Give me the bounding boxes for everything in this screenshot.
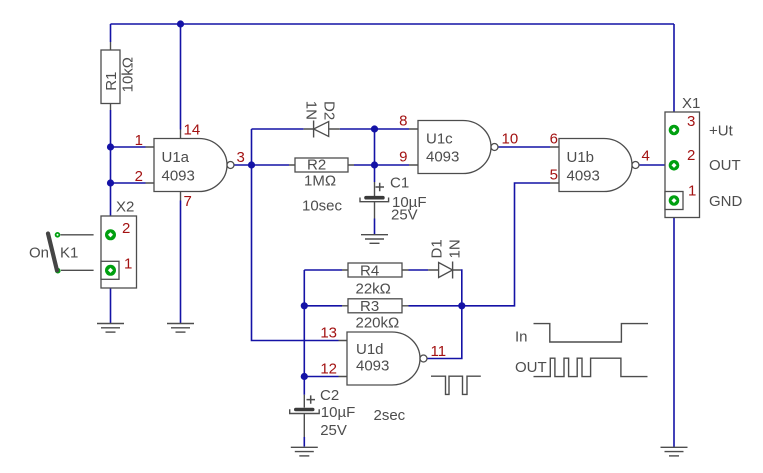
svg-text:8: 8 — [399, 113, 407, 130]
wire X1 pin3 drop — [673, 24, 675, 130]
junction node pin8 — [371, 125, 378, 132]
svg-text:K1: K1 — [60, 245, 78, 262]
wire R3 line left — [304, 305, 342, 307]
wire X1 pin1 to ground — [673, 201, 675, 448]
wire U1b output to X1 pad2 — [639, 164, 674, 166]
pad X1-1 — [669, 195, 680, 206]
svg-text:3: 3 — [687, 113, 695, 130]
junction node pin9 — [371, 161, 378, 168]
resistor R1 — [101, 42, 137, 110]
pad X1-2 — [669, 160, 680, 171]
svg-text:2sec: 2sec — [374, 407, 406, 424]
resistor R3 — [342, 298, 409, 332]
svg-text:22kΩ: 22kΩ — [356, 281, 391, 298]
svg-text:C2: C2 — [320, 387, 339, 404]
junction node pin1 — [107, 143, 114, 150]
wire U1a pin7 to ground — [180, 201, 182, 324]
svg-text:220kΩ: 220kΩ — [356, 315, 400, 332]
wire R4 line left — [304, 269, 342, 271]
connector X1 — [665, 95, 700, 218]
svg-text:1MΩ: 1MΩ — [304, 173, 336, 190]
svg-text:10sec: 10sec — [302, 198, 343, 215]
wire D2 line left — [252, 128, 304, 130]
svg-text:+Ut: +Ut — [709, 123, 734, 140]
op-amp U1c (NAND gate) — [409, 121, 498, 174]
svg-text:U1d: U1d — [356, 341, 384, 358]
svg-text:3: 3 — [237, 149, 245, 166]
wire node up branch — [251, 129, 253, 165]
svg-text:4093: 4093 — [162, 168, 195, 185]
waveform OUT — [515, 358, 648, 376]
wire U1d output up to R3 node — [427, 306, 462, 359]
ground X2 — [97, 324, 124, 333]
diode D1 — [428, 239, 463, 278]
svg-text:D1: D1 — [429, 239, 446, 258]
wire U1a output to node — [234, 164, 252, 166]
ground U1a pin7 — [167, 324, 194, 333]
waveform U1d pulses — [431, 376, 481, 394]
pad X2-1 — [105, 265, 116, 276]
svg-text:6: 6 — [550, 131, 558, 148]
svg-text:10µF: 10µF — [321, 404, 356, 421]
diode D2 — [303, 101, 340, 138]
svg-text:14: 14 — [184, 122, 201, 139]
junction node pin12 — [301, 373, 308, 380]
junction node R3 left — [301, 302, 308, 309]
waveform In — [515, 324, 648, 346]
wire R1 top drop — [110, 24, 112, 42]
svg-text:13: 13 — [320, 325, 337, 342]
svg-text:25V: 25V — [320, 422, 347, 439]
wire R2 right to U1c pin9 — [354, 164, 409, 166]
svg-text:12: 12 — [320, 361, 337, 378]
svg-text:5: 5 — [550, 167, 558, 184]
svg-text:7: 7 — [184, 193, 192, 210]
ground C1 — [361, 235, 388, 244]
svg-text:U1b: U1b — [567, 149, 595, 166]
svg-text:2: 2 — [687, 147, 695, 164]
op-amp U1d (NAND gate) — [339, 332, 428, 385]
svg-text:U1a: U1a — [162, 149, 190, 166]
wire X2 pad1 to ground — [110, 270, 112, 323]
wire feedback vertical to U1d pin13 — [252, 165, 339, 341]
wire node to R2 left — [252, 164, 290, 166]
junction node pin2 — [107, 179, 114, 186]
wire R4/R3/C2 vertical — [303, 270, 305, 395]
junction node U1a output — [248, 161, 255, 168]
wire R1 bottom to X2 pad 2 — [110, 110, 112, 235]
wire D1 to corner down to R3 node — [460, 270, 462, 306]
svg-text:1: 1 — [124, 256, 132, 273]
svg-text:4093: 4093 — [426, 149, 459, 166]
svg-text:X2: X2 — [116, 199, 134, 216]
svg-text:X1: X1 — [682, 95, 700, 112]
svg-text:On: On — [29, 245, 49, 262]
wire U1c output to U1b pin6 — [498, 146, 550, 148]
svg-text:2: 2 — [135, 168, 143, 185]
svg-text:1N: 1N — [447, 239, 464, 258]
svg-text:4: 4 — [642, 148, 650, 165]
svg-text:11: 11 — [431, 343, 447, 360]
wire D2 to U1c pin8 — [340, 128, 409, 130]
svg-text:R3: R3 — [360, 298, 379, 315]
svg-text:R2: R2 — [307, 157, 326, 174]
switch K1 — [29, 232, 94, 274]
wire U1a pin14 drop — [180, 24, 182, 130]
svg-text:10kΩ: 10kΩ — [120, 57, 137, 92]
svg-text:2: 2 — [122, 220, 130, 237]
capacitor C2 — [290, 387, 406, 439]
svg-text:4093: 4093 — [356, 358, 389, 375]
svg-text:1N: 1N — [303, 101, 320, 120]
wire U1a pin1 — [111, 146, 146, 148]
wire vertical pin8-pin9 junction — [374, 129, 376, 165]
svg-text:In: In — [515, 329, 528, 346]
junction node top bus — [177, 20, 184, 27]
wire top supply bus — [111, 23, 675, 25]
wire R4 right to D1 — [409, 269, 429, 271]
wire U1d pin12 — [304, 376, 338, 378]
wire C2 bottom to ground — [303, 437, 305, 447]
resistor R4 — [342, 263, 409, 298]
svg-text:1: 1 — [135, 132, 143, 149]
svg-text:D2: D2 — [321, 101, 338, 120]
capacitor C1 — [360, 175, 427, 224]
op-amp U1b (NAND gate) — [550, 139, 639, 192]
svg-text:25V: 25V — [391, 207, 418, 224]
svg-text:9: 9 — [399, 149, 407, 166]
pad X2-2 — [105, 229, 116, 240]
svg-text:OUT: OUT — [709, 157, 741, 174]
wire down to C1 — [374, 165, 376, 182]
resistor R2 — [289, 157, 354, 215]
pad X1-3 — [669, 125, 680, 136]
ground X1 — [661, 447, 688, 456]
op-amp U1a (NAND gate) — [146, 130, 235, 201]
wire R3 right to node — [409, 305, 462, 307]
svg-text:C1: C1 — [390, 175, 409, 192]
wire U1b pin5 net — [462, 183, 550, 306]
connector X2 — [101, 199, 137, 289]
svg-text:4093: 4093 — [567, 168, 600, 185]
wire C1 bottom to ground — [374, 219, 376, 235]
junction node R3 right — [458, 302, 465, 309]
ground C2 — [291, 447, 318, 456]
svg-text:R1: R1 — [103, 72, 120, 91]
wire U1a pin2 — [111, 182, 146, 184]
svg-text:OUT: OUT — [515, 359, 547, 376]
svg-text:U1c: U1c — [426, 131, 453, 148]
svg-text:10: 10 — [502, 131, 519, 148]
svg-text:GND: GND — [709, 193, 743, 210]
svg-text:1: 1 — [688, 183, 696, 200]
svg-text:R4: R4 — [360, 263, 379, 280]
